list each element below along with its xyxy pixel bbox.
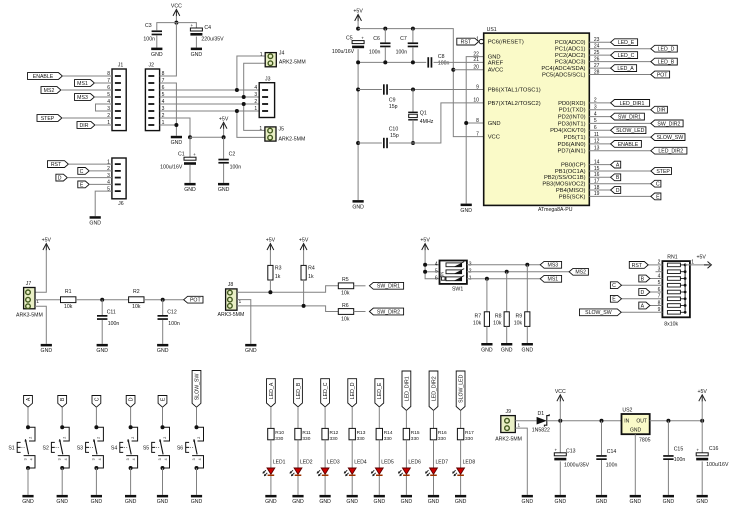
svg-text:330: 330 [411,436,419,442]
flag C [651,180,661,187]
capacitor C9 [383,84,385,94]
svg-text:4: 4 [64,458,68,460]
svg-text:1N5822: 1N5822 [532,427,550,433]
svg-text:RST: RST [51,162,62,168]
ground below S5 [157,495,168,498]
node C6 top tap [383,27,387,31]
wire +5V stem PSU [701,401,703,421]
svg-text:4: 4 [198,458,202,460]
wire U1 pin 11 to flag SLOW_SW [589,136,651,138]
resistor R15 330 [403,428,409,439]
svg-text:3: 3 [23,458,27,460]
svg-text:SLOW_LED: SLOW_LED [459,374,465,403]
resistor R9 10k [525,312,530,327]
node S2 bottom [60,466,64,470]
ground below S1 [22,495,33,498]
svg-text:4: 4 [98,458,102,460]
svg-text:PB4(MISO): PB4(MISO) [556,188,586,194]
power flag +5V above C2 [220,122,227,128]
wire SW1 pin 2 to MS2 [467,271,569,273]
power flag +5V right arrow [708,262,712,269]
svg-text:J3: J3 [265,76,271,82]
svg-text:GND: GND [184,187,196,193]
ground below S3 [91,495,102,498]
svg-text:A: A [26,397,32,401]
svg-text:8x10k: 8x10k [664,321,678,327]
svg-text:4: 4 [132,458,136,460]
flag DIR [77,122,95,129]
svg-text:330: 330 [302,436,310,442]
svg-text:GND: GND [488,121,501,127]
svg-text:C5: C5 [346,35,353,41]
svg-text:VCC: VCC [555,389,566,395]
flag SW_DIR2 [369,308,403,315]
capacitor C1 [189,137,191,157]
wire +5V to J7 pin top [35,250,46,292]
RN1 bus node 8 [684,311,687,314]
ground below LED8 [455,495,466,498]
svg-text:10k: 10k [341,316,350,322]
node S1 bottom [26,466,30,470]
node VCC tap [558,419,562,423]
flag LED_C above R12 [321,379,330,407]
wire U1 pin 26 to flag LED_B [589,61,651,63]
flag D to J6 [56,174,67,181]
flag LED_C [611,52,638,59]
wire U1 pin 4 to flag SW_DIR1 [589,116,610,118]
wire C14 stem [601,421,603,455]
svg-text:GND: GND [96,348,108,354]
wire R11 to LED2 [297,440,299,468]
svg-text:SLOW_SW: SLOW_SW [657,135,684,141]
svg-text:+: + [554,448,557,453]
flag LED_A [611,65,637,72]
svg-text:R11: R11 [302,430,311,436]
ground below LED4 [347,495,358,498]
svg-text:E: E [160,397,166,401]
svg-text:GND: GND [91,499,103,505]
node +5V C16 tap [700,419,704,423]
svg-text:R7: R7 [475,313,482,319]
svg-text:C13: C13 [566,448,576,454]
wire C2 to ground [223,164,225,183]
capacitor C3 [152,30,162,32]
ground below R8 [501,343,512,346]
wire tap to J4 pin 2 [244,63,266,97]
svg-text:C: C [656,182,660,188]
wire +5V rail under J2 [190,136,224,138]
flag E to J6 [78,181,89,188]
wire R15 to LED6 [405,440,407,468]
capacitor C14 [596,455,606,457]
flag MS1 [75,80,95,87]
svg-text:ENABLE: ENABLE [618,142,639,148]
wire flag to R10 [270,407,272,429]
resistor R6 10k [338,309,353,315]
ground below R7 [481,343,492,346]
svg-text:MS3: MS3 [548,263,559,269]
wire SW1 left pin 4 [425,264,439,266]
svg-text:330: 330 [357,436,365,442]
wire GND vertical from C5 [357,62,359,200]
svg-text:GND: GND [555,499,567,505]
svg-text:LED3: LED3 [327,459,340,465]
flag POT [184,296,203,303]
node C11 junction [100,298,104,302]
ground below S6 [191,495,202,498]
flag SW_DIR1 [369,282,403,289]
svg-text:SW_DIR2: SW_DIR2 [657,121,680,127]
wire +5V stem to rail [357,21,359,29]
wire R5 to SW_DIR1 flag [354,285,366,287]
svg-text:MS3: MS3 [77,95,88,101]
wire R8 stem [506,272,508,312]
svg-text:LED_DIR1: LED_DIR1 [620,101,645,107]
wire C8 to U1 AREF pin 21 [434,61,484,63]
svg-text:C2: C2 [229,151,236,157]
svg-text:+5V: +5V [219,116,229,122]
svg-text:PD7(AIN1): PD7(AIN1) [557,149,585,155]
svg-text:PD3(INT1): PD3(INT1) [558,121,586,127]
svg-text:GND: GND [292,499,304,505]
wire +5V to SW1 left pins [425,250,439,279]
svg-text:1k: 1k [275,274,281,280]
svg-text:10k: 10k [64,304,73,310]
switch S3 body [96,427,103,441]
svg-text:330: 330 [384,436,392,442]
svg-text:GND: GND [630,499,642,505]
wire C6 stem top [384,29,386,43]
ground below J8 [245,344,256,347]
flag B above S2 [58,396,67,408]
wire E to J6 pin 4 [89,183,112,185]
svg-text:GND: GND [522,347,534,353]
svg-text:S6: S6 [177,445,183,451]
svg-text:VCC: VCC [488,135,500,141]
wire E to RN1 pin 7 [622,298,663,300]
flag E at RN1 [610,295,621,302]
flag ENABLE [28,73,63,80]
wire R10 to LED1 [270,440,272,468]
svg-text:GND: GND [401,499,413,505]
flag ENABLE [611,141,642,148]
ground below C11 [97,344,108,347]
flag A at RN1 [639,302,650,309]
ground below C15 [663,495,674,498]
svg-text:LED_D: LED_D [350,382,356,399]
node S2 top [60,425,64,429]
flag POT [651,71,670,78]
svg-text:LED7: LED7 [436,459,449,465]
svg-text:8: 8 [476,118,479,124]
svg-text:100u/16V: 100u/16V [160,165,183,171]
wire R13 to LED4 [351,440,353,468]
svg-text:100n: 100n [168,321,180,327]
svg-text:ARK3-5MM: ARK3-5MM [217,312,244,318]
RN1 bus node 4 [684,284,687,287]
svg-text:PD6(AIN0): PD6(AIN0) [557,142,585,148]
resistor network RN1 body [662,261,690,317]
wire C15 stem [667,421,669,455]
svg-text:PB5(SCK): PB5(SCK) [559,194,586,200]
svg-text:GND: GND [191,499,203,505]
node C10 gnd tap [356,141,360,145]
wire flag to S5 [162,407,164,427]
flag MS1 [540,275,561,282]
svg-text:PB0(ICP): PB0(ICP) [561,163,586,169]
wire C6 bottom [384,47,386,62]
svg-text:PD1(TXD): PD1(TXD) [559,108,586,114]
svg-text:100n: 100n [369,50,381,56]
flag SLOW_LED above R17 [456,371,465,410]
svg-text:STEP: STEP [656,169,670,175]
wire U1 pin 17 to flag C [589,183,651,185]
flag LED_B [651,58,678,65]
wire C to J6 pin 2 [89,170,112,172]
svg-text:LED_D: LED_D [658,47,675,53]
wire C4 to ground [195,37,197,48]
svg-text:3: 3 [58,458,62,460]
svg-text:330: 330 [438,436,446,442]
connector J8 ARK3-5MM [226,289,237,310]
capacitor C12 [158,315,168,317]
wire R14 to LED5 [378,440,380,468]
wire tap to J5 pin 2 [237,111,265,137]
svg-text:1: 1 [260,52,263,58]
flag SLOW_SW at RN1 [580,309,622,316]
svg-text:R16: R16 [438,430,447,436]
wire flag to S3 [95,407,97,427]
wire RST to RN1 pin 2 [648,264,662,266]
svg-text:3: 3 [192,458,196,460]
svg-text:B: B [60,397,66,401]
svg-text:LED_E: LED_E [618,40,635,46]
node S5 top [161,425,165,429]
svg-text:GND: GND [319,499,331,505]
svg-text:E: E [612,297,616,303]
node R9 tap [525,263,529,267]
wire DIR to J1 pin 1 [95,124,112,126]
wire LED5 to ground [378,476,380,495]
wire tap to J4 pin 1 [237,56,265,90]
wire XTAL1 row [358,89,382,91]
flag MS3 [540,261,561,268]
svg-text:GND: GND [455,499,467,505]
connector J9 ARK2-5MM [501,416,516,433]
svg-text:1: 1 [254,106,257,112]
wire U1 pin 6 to flag SLOW_LED [589,129,610,131]
svg-text:C: C [612,283,616,289]
node +5V C1 junction [188,135,192,139]
node C9 gnd tap [356,88,360,92]
power flag +5V at PSU out [699,395,706,401]
wire C11 to ground [101,320,103,344]
diode D1 1N5822 [537,417,547,425]
svg-text:ARK3-5MM: ARK3-5MM [16,313,43,319]
wire J7 bottom pin to ground [35,306,46,344]
svg-text:LED_A: LED_A [269,382,275,399]
ground below LED3 [320,495,331,498]
svg-text:+5V: +5V [353,9,363,15]
svg-text:220u/35V: 220u/35V [201,37,224,43]
wire MS2 to J1 pin 6 [61,89,112,91]
svg-text:100u/16V: 100u/16V [706,462,729,468]
node crystal bottom tap [411,141,415,145]
connector J7 ARK3-5MM [24,288,35,309]
svg-text:LED_DIR2: LED_DIR2 [431,376,437,401]
ground below C12 [157,344,168,347]
wire C11 stem [101,300,103,315]
svg-text:R8: R8 [495,313,502,319]
wire J2 pin 8 to VCC [160,23,177,76]
flag B [611,174,621,181]
svg-text:C3: C3 [145,23,152,29]
ground below LED5 [374,495,385,498]
flag C at RN1 [610,282,621,289]
svg-text:+5V: +5V [420,238,430,244]
RN1 resistor 6 [667,297,680,301]
node crystal top tap [411,88,415,92]
wire C7 stem top [412,29,414,43]
ground below J7 [41,344,52,347]
svg-text:LED_C: LED_C [618,53,635,59]
svg-text:GND: GND [460,208,472,214]
switch S2 body [62,427,69,441]
svg-text:GND: GND [89,221,101,227]
RN1 resistor 1 [667,263,680,267]
svg-text:PD0(RXD): PD0(RXD) [558,101,585,107]
wire D1 to U2 IN rail [547,420,622,422]
svg-text:ENABLE: ENABLE [33,74,54,80]
wire flag to S6 [196,407,198,427]
node R8 tap [505,270,509,274]
power flag +5V top middle [355,15,362,21]
svg-text:LED_DIR2: LED_DIR2 [658,149,683,155]
svg-text:330: 330 [275,436,283,442]
svg-text:LED_C: LED_C [323,382,329,399]
svg-text:A: A [616,163,620,169]
node S1 top [26,425,30,429]
svg-text:+5V: +5V [42,238,52,244]
wire U1 pin 14 to flag A [589,164,610,166]
connector J2 [145,69,159,131]
svg-text:7805: 7805 [639,437,651,443]
svg-text:R17: R17 [465,430,474,436]
wire +5V to R3 [269,250,271,266]
wire LED8 to ground [460,476,462,495]
svg-text:C12: C12 [167,310,177,316]
svg-text:C: C [80,169,84,175]
connector J3 [259,83,274,118]
capacitor C11 [97,315,107,317]
wire SW1 pin 3 to MS3 [467,264,540,266]
svg-text:+: + [361,35,364,40]
capacitor C10 [383,138,385,148]
wire R9 to ground [526,326,528,343]
node row4 J5 tap [242,102,246,106]
svg-text:PC5(ADC5/SCL): PC5(ADC5/SCL) [542,72,586,78]
wire MS1 to J1 pin 7 [94,82,112,84]
svg-text:+5V: +5V [299,238,309,244]
svg-text:RN1: RN1 [667,255,677,261]
svg-text:D: D [616,188,620,194]
svg-text:S2: S2 [43,445,49,451]
wire R16 to LED7 [433,440,435,468]
svg-text:C15: C15 [674,446,684,452]
svg-text:R2: R2 [133,289,140,295]
svg-text:PC6(/RESET): PC6(/RESET) [488,40,524,46]
wire C16 stem [701,421,703,453]
svg-text:DIR: DIR [80,123,89,129]
svg-text:GND: GND [346,499,358,505]
wire flag to R16 [433,410,435,428]
wire SW1 left pin 5 [425,271,439,273]
wire C10 to PB7 jog [389,103,484,143]
flag B at RN1 [639,275,650,282]
flag LED_D [651,45,678,52]
svg-text:R5: R5 [342,277,349,283]
svg-text:3: 3 [158,458,162,460]
wire R9 stem [526,265,528,312]
capacitor C16 [696,453,708,456]
svg-text:J5: J5 [279,126,285,132]
wire J1 pin 4 to pin 3 loop [96,104,113,111]
wire +5V rail to AVCC drop [358,29,484,137]
node R4 bottom junction [302,304,306,308]
svg-text:100n: 100n [438,61,450,67]
ground below J2 [171,136,182,139]
svg-text:2: 2 [163,437,167,439]
svg-text:GND: GND [663,499,675,505]
RN1 resistor 2 [667,270,680,274]
wire crystal bottom lead [412,120,414,143]
wire +5V stem [223,129,225,138]
wire U1 pin 2 to flag LED_DIR1 [589,102,610,104]
resistor R12 330 [322,428,328,439]
svg-text:GND: GND [157,348,169,354]
node +5V rail start [356,27,360,31]
wire J6 pin 5 to ground [95,191,112,216]
power flag +5V at SW1 [422,244,429,250]
svg-text:SLOW_LED: SLOW_LED [616,128,645,134]
wire LED7 to ground [433,476,435,495]
node C6 gnd tap [383,60,387,64]
svg-text:GND: GND [481,347,493,353]
svg-text:S3: S3 [77,445,83,451]
flag SW_DIR1 [611,113,645,120]
svg-text:GND: GND [428,499,440,505]
flag RST at U1 [457,38,479,45]
wire U1 pin 27 to flag LED_A [589,67,610,69]
flag E above S5 [158,396,167,408]
wire S3 to ground [95,468,97,495]
wire XTAL2 row C10 [358,142,382,144]
wire S5 to ground [162,468,164,495]
wire U1 pin 15 to flag STEP [589,170,651,172]
svg-text:1000u/35V: 1000u/35V [564,463,590,469]
node S5 bottom [161,466,165,470]
svg-text:LED_DIR1: LED_DIR1 [404,376,410,401]
wire C3 to ground [156,35,158,47]
wire RST to J6 pin 1 [68,163,112,165]
svg-text:GND: GND [374,499,386,505]
power flag VCC at PSU [557,395,564,401]
node row6 J4 tap [235,88,239,92]
wire C1 to ground [189,165,191,183]
svg-text:AVCC: AVCC [488,68,504,74]
ground below S4 [125,495,136,498]
wire U1 pin 16 to flag B [589,176,610,178]
